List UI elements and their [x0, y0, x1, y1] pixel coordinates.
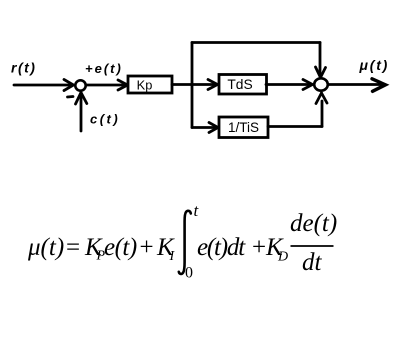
svg-text:c(t): c(t) [90, 112, 120, 127]
svg-text:e(t)dt: e(t)dt [197, 234, 246, 261]
svg-text:Kp: Kp [137, 78, 153, 93]
svg-text:+e(t): +e(t) [85, 61, 123, 76]
svg-text:+: + [252, 234, 266, 261]
svg-text:I: I [169, 249, 176, 264]
svg-text:μ(t): μ(t) [27, 234, 64, 261]
svg-text:TdS: TdS [227, 77, 252, 92]
svg-text:+: + [140, 234, 154, 261]
svg-text:0: 0 [185, 265, 193, 282]
svg-text:de(t): de(t) [290, 210, 337, 237]
svg-text:r(t): r(t) [11, 60, 36, 76]
svg-text:1/TiS: 1/TiS [228, 120, 259, 135]
svg-text:D: D [277, 250, 288, 265]
svg-text:dt: dt [302, 249, 323, 276]
svg-text:e(t): e(t) [104, 234, 137, 261]
svg-text:=: = [66, 234, 80, 261]
svg-text:t: t [194, 201, 200, 220]
svg-text:μ(t): μ(t) [359, 57, 390, 73]
